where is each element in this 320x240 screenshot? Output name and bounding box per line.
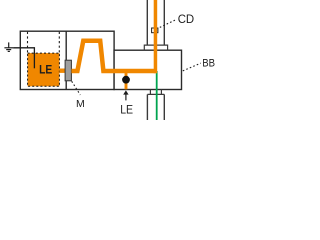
top tube collar <box>144 45 167 50</box>
ground <box>4 42 13 51</box>
pointer to CD <box>160 19 177 27</box>
top tube walls <box>146 0 148 45</box>
mass M block <box>65 60 71 81</box>
box BB right body <box>114 50 181 89</box>
link LE to mass M <box>59 68 65 72</box>
sensor CD square <box>152 28 158 33</box>
svg-text:LE: LE <box>120 104 133 117</box>
svg-text:M: M <box>76 98 85 110</box>
bottom neck <box>149 90 151 95</box>
pivot dot <box>122 76 130 84</box>
green fiber <box>156 71 158 120</box>
svg-text:LE: LE <box>39 63 52 77</box>
svg-text:BB: BB <box>202 57 215 69</box>
pointer to BB <box>183 63 201 71</box>
pointer to M <box>72 81 81 95</box>
dashed slot guide left <box>27 32 29 53</box>
spring blade (orange) <box>71 41 155 71</box>
internal wall <box>65 31 67 89</box>
box BB left body <box>20 31 114 89</box>
wire ground to LE <box>13 48 34 69</box>
pendulum stem <box>125 71 128 89</box>
orange rod riser <box>154 0 158 73</box>
svg-text:CD: CD <box>178 14 195 26</box>
bottom tube flange <box>147 93 164 95</box>
arrow under box <box>125 94 127 101</box>
sensor LE box <box>28 53 60 86</box>
bottom tube walls <box>146 94 148 120</box>
wire segment inside LE <box>33 53 35 68</box>
dashed slot guide right <box>58 32 60 53</box>
